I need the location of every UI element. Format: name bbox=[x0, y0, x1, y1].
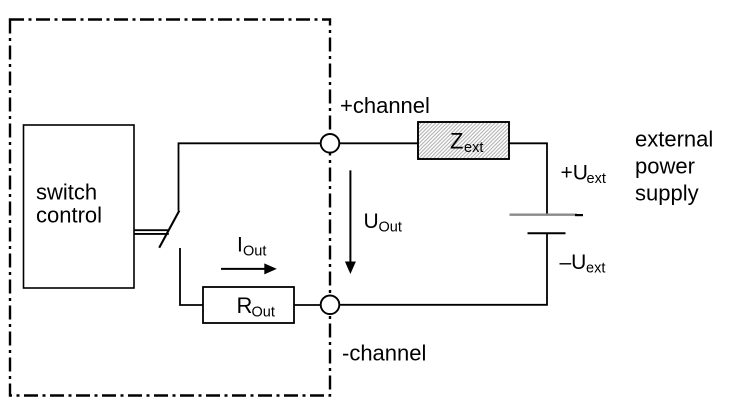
resistor ROut bbox=[203, 287, 294, 323]
current arrow IOut bbox=[221, 263, 277, 274]
svg-text:Out: Out bbox=[379, 220, 402, 236]
svg-text:R: R bbox=[237, 293, 253, 318]
battery external supply negative plate bbox=[528, 232, 566, 234]
svg-text:I: I bbox=[237, 234, 243, 257]
svg-text:+channel: +channel bbox=[340, 93, 430, 118]
label UOut bbox=[364, 210, 402, 236]
channel-boundary dash-dot enclosure bbox=[10, 20, 330, 396]
label IOut bbox=[237, 234, 266, 260]
svg-text:Out: Out bbox=[252, 305, 275, 321]
node -channel bbox=[321, 296, 340, 315]
voltage arrow UOut bbox=[345, 170, 356, 274]
switch blade (open) bbox=[159, 211, 179, 248]
svg-text:U: U bbox=[364, 210, 379, 233]
label -channel bbox=[342, 340, 426, 365]
wire battery negative to -channel node bbox=[339, 233, 547, 304]
wire +channel node to Zext bbox=[339, 142, 418, 144]
wire switch lower contact to ROut bbox=[180, 248, 203, 305]
impedance Zext bbox=[418, 122, 509, 159]
wire top rail left (riser to +channel node) bbox=[179, 143, 321, 211]
switch control block bbox=[24, 125, 135, 288]
svg-text:switch: switch bbox=[36, 180, 97, 205]
svg-text:Z: Z bbox=[450, 129, 463, 154]
svg-text:power: power bbox=[635, 153, 695, 178]
svg-text:supply: supply bbox=[635, 180, 699, 205]
svg-text:control: control bbox=[36, 203, 102, 228]
wire Zext to battery positive bbox=[509, 143, 547, 214]
switch actuator double link bbox=[134, 230, 169, 234]
label +channel bbox=[340, 93, 430, 118]
svg-text:ext: ext bbox=[464, 140, 483, 156]
svg-text:external: external bbox=[635, 126, 713, 151]
label +Uext bbox=[561, 162, 606, 187]
svg-text:-channel: -channel bbox=[342, 340, 426, 365]
svg-text:Out: Out bbox=[243, 244, 266, 260]
svg-text:ext: ext bbox=[587, 171, 606, 187]
svg-text:ext: ext bbox=[586, 261, 605, 277]
label -Uext bbox=[560, 251, 606, 276]
wire ROut to -channel node bbox=[294, 304, 321, 306]
battery external supply positive plate bbox=[510, 213, 584, 216]
label external power supply bbox=[635, 126, 713, 205]
svg-text:–U: –U bbox=[560, 251, 587, 274]
node +channel bbox=[321, 134, 340, 153]
svg-text:+U: +U bbox=[561, 162, 588, 185]
